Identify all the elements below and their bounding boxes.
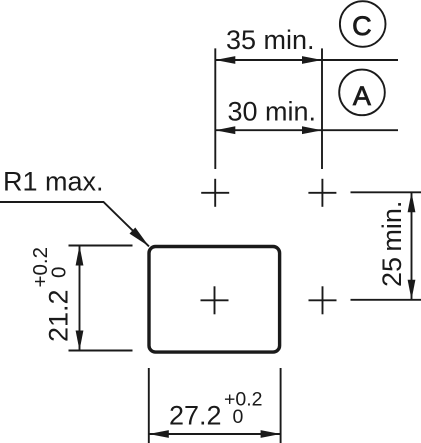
extension line 21.2 bottom	[69, 350, 133, 352]
centerline cross: top-left hole	[201, 179, 229, 207]
dimension line 21.2	[79, 246, 81, 351]
extension line right (top dimensions)	[321, 48, 323, 169]
svg-text:30 min.: 30 min.	[228, 97, 317, 127]
extension line 27.2 right	[280, 368, 282, 443]
centerline cross: right hole center	[309, 286, 337, 314]
datum circle C	[340, 1, 386, 47]
panel cutout rounded rectangle	[149, 247, 280, 353]
leader line R1	[0, 202, 149, 246]
extension line 21.2 top	[69, 245, 133, 247]
svg-text:A: A	[353, 81, 371, 111]
centerline cross: cutout center	[201, 286, 229, 314]
extension line 25 min bottom	[351, 299, 421, 301]
svg-text:R1 max.: R1 max.	[3, 167, 104, 197]
svg-text:21.2: 21.2	[44, 289, 74, 342]
svg-text:0: 0	[48, 267, 71, 278]
datum circle A	[339, 70, 385, 116]
dimension line 30 min	[215, 129, 398, 131]
dimension line 35 min	[215, 59, 398, 61]
extension line 25 min top	[351, 191, 421, 193]
svg-text:0: 0	[233, 406, 244, 428]
extension line 27.2 left	[148, 368, 150, 443]
extension line left (top dimensions)	[214, 48, 216, 169]
dimension line 27.2	[149, 433, 281, 435]
svg-text:35 min.: 35 min.	[226, 25, 315, 55]
svg-text:C: C	[352, 11, 372, 41]
svg-text:25 min.: 25 min.	[377, 201, 407, 287]
centerline cross: top-right hole	[308, 179, 336, 207]
svg-text:27.2: 27.2	[169, 401, 222, 431]
dimension line 25 min	[411, 192, 413, 299]
